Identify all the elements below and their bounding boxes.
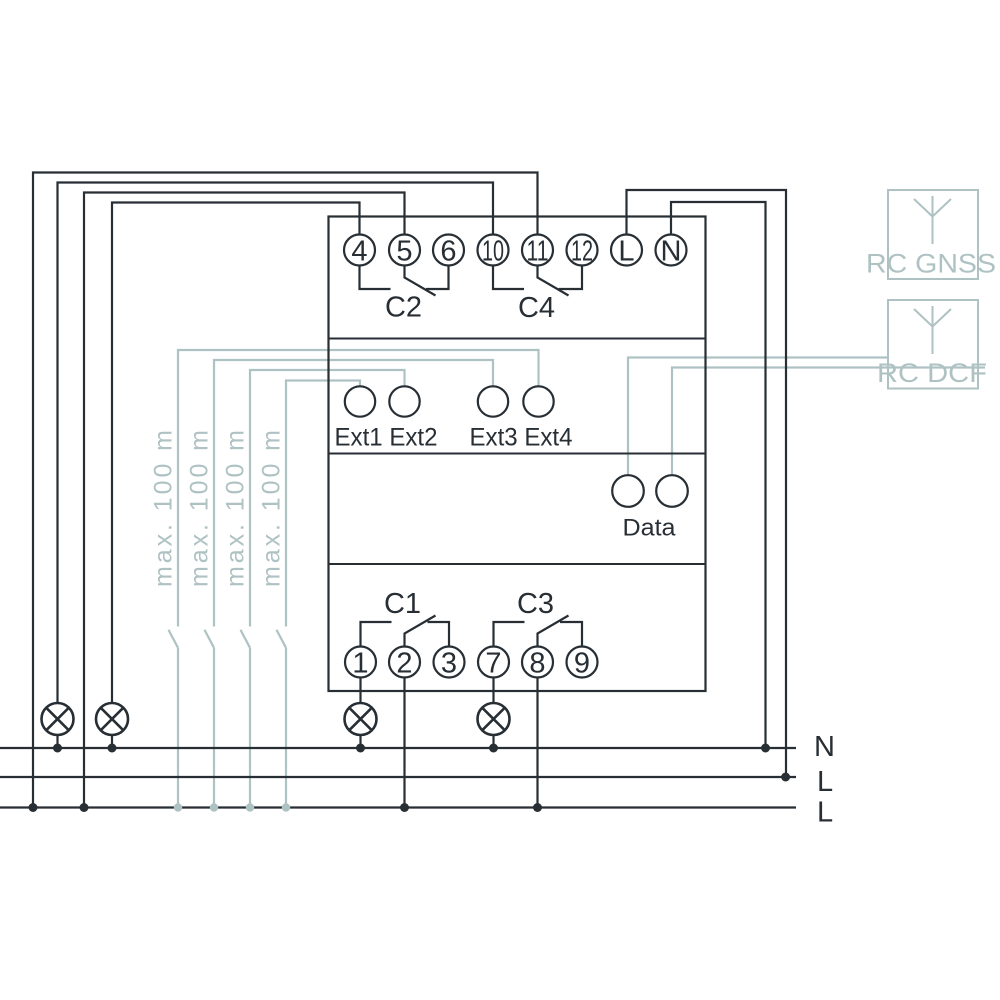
junction: external switch wire / L bus bbox=[282, 803, 290, 811]
svg-text:C1: C1 bbox=[384, 588, 421, 620]
svg-text:N: N bbox=[661, 236, 682, 268]
junction: terminal 5 wire / L bus bbox=[80, 803, 89, 812]
terminal 11 bbox=[522, 235, 553, 266]
external push-button switch for Ext1 bbox=[277, 630, 287, 648]
terminal 2 bbox=[389, 647, 420, 678]
relay contact C4: pole from terminal 12 bbox=[559, 266, 583, 290]
svg-text:1: 1 bbox=[352, 648, 368, 680]
antenna symbol (RC GNSS) bbox=[932, 196, 934, 244]
lamp E2 bbox=[96, 703, 128, 735]
junction: lamp E1 / N bus bbox=[53, 744, 62, 753]
wire: terminal 1 to lamp 3 bbox=[359, 678, 361, 704]
svg-text:9: 9 bbox=[574, 648, 590, 680]
antenna module RC GNSS bbox=[888, 190, 978, 279]
relay contact C4: common blade from terminal 11 bbox=[538, 266, 569, 296]
junction: lamp E2 / N bus bbox=[108, 744, 117, 753]
svg-text:2: 2 bbox=[396, 648, 412, 680]
svg-text:L: L bbox=[817, 797, 833, 829]
wire: terminal 7 to lamp 4 bbox=[492, 678, 494, 704]
wire: switch to L bus (Ext4 circuit) bbox=[177, 648, 179, 808]
relay contact C3: common blade from terminal 8 bbox=[538, 616, 569, 647]
input terminal Ext2 bbox=[389, 386, 419, 416]
svg-text:L: L bbox=[817, 766, 833, 798]
wire: external switch to Ext4 input bbox=[178, 350, 539, 627]
terminal 9 bbox=[567, 647, 598, 678]
junction: terminal N wire / N bus bbox=[761, 744, 770, 753]
wire: Data terminal 1 to RC DCF antenna bbox=[628, 358, 888, 476]
terminal L bbox=[611, 235, 642, 266]
lamp E4 bbox=[478, 703, 510, 735]
svg-text:8: 8 bbox=[529, 648, 545, 680]
terminal 4 bbox=[344, 235, 375, 266]
svg-text:C2: C2 bbox=[385, 292, 422, 324]
wire: terminal 2 to L bus bbox=[403, 678, 405, 808]
terminal 8 bbox=[522, 647, 553, 678]
svg-text:Data: Data bbox=[623, 515, 677, 542]
svg-text:N: N bbox=[814, 731, 835, 763]
wire: external switch to Ext2 input bbox=[250, 370, 405, 627]
wire: terminal 11 to L bus (left loop) bbox=[33, 173, 538, 808]
svg-text:12: 12 bbox=[571, 236, 593, 268]
wire: lamp E1 to N bus bbox=[56, 735, 58, 748]
junction: external switch wire / L bus bbox=[246, 803, 254, 811]
junction: lamp E4 / N bus bbox=[489, 744, 498, 753]
wire: switch to L bus (Ext1 circuit) bbox=[285, 648, 287, 808]
relay contact C3: pole from terminal 7 bbox=[494, 622, 525, 647]
relay contact C1: common blade from terminal 2 bbox=[405, 616, 436, 647]
lamp E3 bbox=[345, 703, 377, 735]
relay contact C2: common blade from terminal 5 bbox=[405, 266, 436, 296]
junction: external switch wire / L bus bbox=[210, 803, 218, 811]
wire: Data terminal 2 to RC DCF antenna bbox=[672, 368, 985, 476]
device section divider 1 bbox=[329, 338, 706, 340]
wire: switch to L bus (Ext3 circuit) bbox=[213, 648, 215, 808]
relay contact C3: pole from terminal 9 bbox=[560, 622, 582, 647]
terminal 5 bbox=[389, 235, 420, 266]
junction: terminal 2 wire / L bus bbox=[400, 803, 409, 812]
junction: lamp E3 / N bus bbox=[356, 744, 365, 753]
svg-text:C4: C4 bbox=[518, 292, 555, 324]
antenna module RC DCF bbox=[888, 300, 978, 389]
terminal 3 bbox=[434, 647, 465, 678]
svg-text:7: 7 bbox=[485, 648, 501, 680]
terminal 10 bbox=[478, 235, 509, 266]
wire: lamp E4 to N bus bbox=[492, 735, 494, 748]
junction: terminal L wire / L bus bbox=[781, 773, 790, 782]
svg-text:3: 3 bbox=[441, 648, 457, 680]
junction: terminal 8 wire / L bus bbox=[533, 803, 542, 812]
wire: external switch to Ext1 input bbox=[286, 381, 360, 627]
relay contact C2: pole from terminal 4 bbox=[360, 266, 391, 290]
terminal 12 bbox=[567, 235, 598, 266]
relay contact C1: pole from terminal 1 bbox=[361, 622, 392, 647]
external push-button switch for Ext3 bbox=[205, 630, 215, 648]
wire: terminal 4 to lamp 2 bbox=[112, 203, 360, 704]
wire: terminal L to L bus bbox=[627, 190, 787, 777]
svg-text:11: 11 bbox=[527, 236, 549, 268]
svg-text:10: 10 bbox=[482, 236, 504, 268]
svg-text:6: 6 bbox=[440, 236, 456, 268]
wire: lamp E3 to N bus bbox=[359, 735, 361, 748]
svg-text:4: 4 bbox=[351, 236, 367, 268]
relay contact C2: pole from terminal 6 bbox=[426, 266, 449, 290]
antenna symbol (RC DCF) bbox=[932, 306, 934, 354]
relay contact C4: pole from terminal 10 bbox=[493, 266, 524, 290]
junction: terminal 11 wire / L bus bbox=[29, 803, 38, 812]
external push-button switch for Ext2 bbox=[241, 630, 251, 648]
wire: switch to L bus (Ext2 circuit) bbox=[249, 648, 251, 808]
wire: terminal 10 to lamp 1 bbox=[58, 183, 494, 704]
lamp E1 bbox=[42, 703, 74, 735]
wire: terminal 8 to L bus bbox=[536, 678, 538, 808]
wire: terminal 5 to L bus (left loop) bbox=[84, 193, 405, 808]
junction: external switch wire / L bus bbox=[174, 803, 182, 811]
wire: lamp E2 to N bus bbox=[111, 735, 113, 748]
Data terminal 1 bbox=[612, 475, 644, 507]
input terminal Ext3 bbox=[478, 386, 508, 416]
input terminal Ext4 bbox=[523, 386, 553, 416]
terminal 1 bbox=[345, 647, 376, 678]
svg-text:C3: C3 bbox=[517, 588, 554, 620]
external push-button switch for Ext4 bbox=[169, 630, 179, 648]
svg-text:Ext1 Ext2: Ext1 Ext2 bbox=[335, 424, 438, 451]
wire: external switch to Ext3 input bbox=[214, 360, 493, 627]
bus L (middle) bbox=[0, 776, 796, 778]
svg-text:Ext3 Ext4: Ext3 Ext4 bbox=[470, 424, 573, 451]
svg-text:5: 5 bbox=[396, 236, 412, 268]
device section divider 3 bbox=[329, 563, 706, 565]
bus L (bottom) bbox=[0, 806, 796, 808]
relay contact C1: pole from terminal 3 bbox=[428, 622, 450, 647]
Data terminal 2 bbox=[656, 475, 688, 507]
time switch device outline U1 bbox=[329, 217, 706, 692]
svg-text:L: L bbox=[618, 236, 634, 268]
terminal N bbox=[656, 235, 687, 266]
terminal 6 bbox=[433, 235, 464, 266]
input terminal Ext1 bbox=[345, 386, 375, 416]
bus N bbox=[0, 747, 796, 749]
terminal 7 bbox=[478, 647, 509, 678]
wire: terminal N to N bus bbox=[671, 202, 766, 748]
device section divider 2 bbox=[329, 453, 706, 455]
svg-text:RC DCF: RC DCF bbox=[877, 358, 987, 388]
svg-text:RC GNSS: RC GNSS bbox=[866, 249, 996, 279]
